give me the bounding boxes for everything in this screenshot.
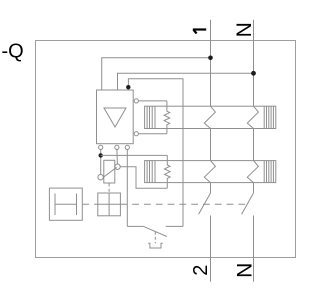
wire N top entry (253, 20, 255, 106)
wire test contact right lead (166, 225, 183, 227)
wire L1 between cores (210, 129, 212, 161)
conductor N through core 2 (247, 161, 258, 183)
wire N bottom exit (253, 216, 255, 282)
winding W2 right bars (264, 161, 273, 183)
wire L1 top entry (210, 20, 212, 106)
mechanism box (98, 193, 121, 216)
wire test circuit top (128, 79, 183, 227)
toroid core 1 (145, 106, 276, 128)
wire terminal3 down (126, 150, 128, 227)
wire N to contact (253, 183, 255, 193)
label terminal 1 (193, 30, 206, 34)
winding W1 left bars (147, 106, 155, 128)
wire L1 bottom exit (210, 216, 212, 282)
conductor N through core 1 (247, 106, 258, 128)
wire W2 lower lead (120, 167, 167, 189)
mechanism box cross (98, 193, 121, 216)
wire terminal1 down (100, 150, 102, 175)
trip relay diagonal (103, 167, 116, 177)
test contact blade (144, 226, 167, 236)
conductor L1 through core 2 (204, 161, 215, 183)
relay linkage dashed (108, 184, 110, 194)
test button linkage dashed (154, 232, 156, 244)
wire test contact left lead (127, 225, 143, 227)
wire module to L1 junction (102, 58, 211, 90)
relay terminal upper-right (115, 164, 120, 169)
junction dot on N (251, 71, 256, 76)
mechanism linkage dashed left (82, 203, 98, 205)
test button actuator (148, 243, 163, 248)
switch contact blade N (242, 193, 254, 214)
mechanism linkage dashed right (120, 203, 246, 205)
wire module to N junction (118, 73, 254, 90)
switch contact blade L1 (199, 193, 211, 214)
manual actuator housing (49, 188, 82, 220)
module terminal bottom 3 (125, 145, 129, 149)
svg-text:N: N (234, 263, 257, 278)
resistor R2 (165, 155, 171, 188)
wire N between cores (253, 129, 255, 161)
relay terminal lower-left (98, 175, 103, 180)
module terminal bottom 2 (115, 145, 119, 149)
wire terminal2 down (116, 150, 119, 165)
module terminal right upper (134, 99, 138, 103)
junction dot node B1 (99, 153, 103, 157)
wire W1 lower lead (138, 133, 167, 135)
resistor R1 (164, 101, 170, 134)
wire W2 upper lead (101, 154, 168, 156)
winding W2 left bars (147, 161, 155, 183)
module terminal right lower (134, 132, 138, 136)
conductor L1 through core 1 (204, 106, 215, 128)
toroid core 2 (145, 161, 276, 183)
svg-text:N: N (233, 22, 256, 37)
enclosure outline (36, 41, 296, 258)
actuator H symbol (55, 194, 77, 216)
electronics module U1 (97, 90, 134, 144)
module terminal bottom 1 (99, 145, 103, 149)
trip relay K1 body (104, 160, 115, 183)
module triangle symbol (104, 108, 126, 127)
wire L1 to contact (210, 183, 212, 193)
svg-text:2: 2 (190, 265, 212, 276)
junction dot on L1 (208, 56, 213, 61)
junction dot module top (126, 85, 130, 89)
wire W1 upper lead (138, 100, 167, 102)
svg-text:-Q: -Q (2, 40, 24, 62)
winding W1 right bars (264, 106, 273, 128)
